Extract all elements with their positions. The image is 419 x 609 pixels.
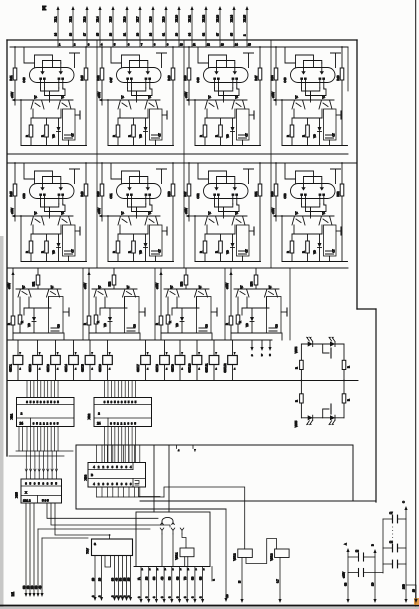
cell7 resistor R73 [204, 234, 206, 241]
XS1 left pin wire b [22, 427, 24, 452]
cell8 resistor R84 [307, 234, 309, 241]
cell2 capacitor C25 [150, 109, 163, 140]
cell2 screen stub [157, 52, 167, 54]
cell7 screen stub [244, 168, 254, 170]
cellB4 bottom wire [231, 332, 281, 334]
cell3 resistor R31 [187, 68, 191, 80]
cell5 transistor VT5.1 [31, 216, 44, 225]
svg-text:+12V: +12V [10, 208, 14, 214]
XS5 pin top 3 [34, 451, 36, 479]
svg-text:26: 26 [135, 33, 139, 36]
XS1 pin wire bottom 1 [26, 427, 28, 452]
XS3 pin top 6 [123, 445, 125, 463]
svg-text:C53: C53 [283, 193, 287, 199]
svg-text:R41: R41 [9, 75, 13, 81]
cell6 bottom wire [108, 261, 174, 263]
svg-text:32: 32 [201, 33, 205, 36]
cell5 triode V5.2 [60, 179, 62, 187]
cell3 resistor R31 feed wire [188, 47, 190, 68]
DD1 top feed [109, 535, 111, 539]
XS2 pin wire bottom 3 [110, 427, 112, 463]
cell2 resistor R24 [133, 118, 135, 125]
cellB4 zener VD74 [250, 317, 254, 322]
net A rail [347, 552, 349, 600]
cell8 bottom wire [282, 261, 348, 263]
cell2 base bar [107, 99, 160, 101]
svg-text:X7.3: X7.3 [82, 16, 86, 22]
row3 divider 3 [224, 268, 226, 340]
cell8 resistor R83 [291, 234, 293, 241]
cell2 transistor VT2.2 [145, 100, 158, 109]
cell3 resistor R32 [258, 68, 262, 80]
cell7 cathode wiring [215, 204, 233, 207]
cellB2 capacitor C82 [125, 297, 140, 334]
svg-text:VD: VD [225, 250, 229, 254]
svg-text:C49: C49 [283, 77, 287, 83]
svg-text:C7: C7 [71, 249, 75, 253]
coupler GB9 [179, 340, 181, 356]
svg-text:X: X [25, 491, 27, 495]
XS3 pin top 8 [133, 445, 135, 463]
VD5.3 output wire [279, 558, 281, 601]
svg-text:VD74: VD74 [294, 346, 298, 353]
svg-text:a: a [94, 542, 96, 546]
svg-text:VD5.3: VD5.3 [269, 553, 273, 561]
cell4 wire R42 down [341, 80, 343, 146]
XS3 pin bottom 1 [96, 487, 98, 497]
capacitor C8 [383, 547, 393, 549]
cellB2 bottom wire [89, 332, 139, 334]
component VD5.2 [238, 549, 253, 558]
svg-text:VD: VD [138, 250, 142, 254]
XS pin wire top x30 [29, 381, 31, 398]
XS3 bottom manifold [97, 496, 164, 498]
svg-text:GB7.1: GB7.1 [9, 364, 13, 372]
cell7 resistor R74 [220, 234, 222, 241]
coupler GB11 [213, 340, 215, 356]
cellB4 transistor VT74.2 [265, 289, 278, 297]
svg-text:IA: IA [137, 577, 141, 580]
svg-text:R: R [40, 251, 44, 253]
XS3 pin top 1 [96, 445, 98, 463]
cell3 ground stub [249, 114, 254, 116]
cellB3 bottom wire [161, 332, 211, 334]
cell4 capacitor C45 [324, 109, 337, 140]
cell4 grid wiring upper [285, 47, 296, 68]
svg-text:R: R [238, 321, 242, 323]
svg-text:C7: C7 [332, 133, 336, 137]
cell6 resistor R64 [133, 234, 135, 241]
cell1 resistor R11 [13, 68, 17, 80]
svg-text:R: R [214, 251, 218, 253]
svg-text:R: R [347, 399, 351, 401]
cell4 bottom wire [282, 145, 348, 147]
svg-text:+12V: +12V [184, 92, 188, 98]
cell5 resistor R51 [13, 184, 17, 196]
cell7 resistor R72 feed [259, 163, 261, 184]
cell4 cathode wiring [302, 88, 320, 91]
svg-text:1D: 1D [371, 583, 375, 586]
svg-text:C52: C52 [196, 193, 200, 199]
svg-text:R74: R74 [250, 281, 254, 286]
cellB1 ground stub [63, 311, 69, 313]
cellB2 resistor R72 [113, 268, 115, 275]
cellB4 supply wire [230, 268, 232, 316]
cellB1 resistor lower2 [18, 315, 22, 324]
cell5 mid wire [31, 233, 61, 235]
cell5 grid wiring upper [24, 163, 35, 184]
svg-text:C7: C7 [158, 133, 162, 137]
cell8 zener VD8 [319, 234, 321, 243]
row2 supply rail [7, 162, 357, 164]
svg-text:423995989: 423995989 [93, 482, 132, 486]
coupler GB5 [89, 340, 91, 356]
svg-text:GB7.11: GB7.11 [205, 363, 209, 372]
cellB4 resistor R74 [255, 268, 257, 275]
XS1 lower manifold [16, 450, 73, 452]
svg-text:VD: VD [103, 323, 107, 327]
svg-text:R: R [20, 321, 24, 323]
cell7 resistor R72 [258, 184, 262, 196]
connector XS2 [87, 398, 152, 427]
cell2 resistor R22 feed [172, 47, 174, 68]
amplifier cell A7 [183, 162, 262, 261]
cell5 resistor R52 feed [85, 163, 87, 184]
cell7 transistor VT7.1 [205, 216, 218, 225]
svg-text:R46: R46 [96, 191, 100, 197]
box B2 bottom ext [134, 566, 210, 568]
cell8 triode V8.2 [321, 179, 323, 187]
svg-text:R48: R48 [270, 191, 274, 197]
cellB4 mid wire [242, 307, 269, 309]
cell1 transistor VT1.1 [31, 100, 44, 109]
cellB2 transistor VT72.2 [123, 289, 136, 297]
svg-text:2B: 2B [145, 576, 149, 580]
jumper pins Y [160, 528, 164, 534]
cell7 resistor R71 feed wire [188, 163, 190, 184]
route wire w3 to DD1 [55, 503, 110, 535]
svg-text:M1: M1 [11, 592, 15, 597]
XS3 pin top 9 [139, 445, 141, 463]
coupler GB6 [107, 340, 109, 356]
top pin 15 wire [246, 8, 248, 47]
DD1 pin 5 [122, 556, 124, 599]
cell7 wire resistor to base [188, 196, 190, 221]
top pin 13 wire [219, 8, 221, 47]
amplifier cell A5 [9, 162, 88, 261]
svg-text:R47: R47 [183, 191, 187, 197]
XS2 pin wire bottom 8 [128, 427, 130, 463]
cell5 left drop [20, 216, 22, 262]
svg-text:C: C [402, 501, 406, 503]
box B2 outline [136, 512, 210, 567]
svg-text:VD5.2: VD5.2 [233, 553, 237, 561]
XS5 pin top 2 [30, 451, 32, 479]
svg-text:35: 35 [229, 33, 233, 36]
amplifier cell A1 [9, 46, 88, 145]
svg-text:31: 31 [161, 33, 165, 36]
top pin 10 wire [178, 8, 180, 47]
cell3 resistor R34 [220, 118, 222, 125]
connector XS2 body [94, 398, 152, 427]
DD1 pin 4 [118, 556, 120, 599]
svg-text:R: R [40, 135, 44, 137]
XS pin wire top x136 [135, 381, 137, 398]
cell6 resistor R62 [171, 184, 175, 196]
svg-text:GB7.4: GB7.4 [64, 364, 68, 372]
cell1 grid wiring upper [24, 47, 35, 68]
svg-text:X7.6: X7.6 [122, 16, 126, 22]
B2 right edge ext [211, 567, 213, 582]
svg-text:VD: VD [225, 134, 229, 138]
cell divider 3 [270, 40, 272, 268]
cell5 cathode wiring [41, 204, 59, 207]
XS2 pin wire bottom 1 [104, 427, 106, 463]
LED VD75 [308, 415, 313, 420]
svg-text:X7.15: X7.15 [242, 14, 246, 22]
svg-text:5B: 5B [168, 576, 172, 580]
top pin 11 wire [191, 8, 193, 47]
cellB1 resistor R71 [37, 268, 39, 275]
cell divider 2 [183, 40, 185, 268]
stub output 1 [251, 340, 253, 349]
cellB1 mid wire [24, 307, 51, 309]
svg-text:VD: VD [138, 134, 142, 138]
svg-text:21: 21 [122, 33, 126, 36]
cell8 left drop [281, 216, 283, 262]
svg-text:+12V: +12V [225, 283, 229, 289]
cell1 wire R12 down [85, 80, 87, 146]
cell6 base bar [107, 215, 160, 217]
cell6 resistor R63 [117, 234, 119, 241]
cell5 transistor VT5.2 [58, 216, 71, 225]
cell7 resistor R71 [187, 184, 191, 196]
svg-text:XS2: XS2 [87, 413, 91, 419]
LED VD72 [330, 341, 335, 346]
cell4 screen stub [331, 52, 341, 54]
bridge resistor R77 [342, 360, 346, 369]
cellB1 bottom wire [13, 332, 63, 334]
B2 pin 8 [194, 567, 196, 601]
cell6 resistor R61 feed wire [101, 163, 103, 184]
B2 pin 2 [148, 567, 150, 601]
cellB3 resistor lower2 [166, 315, 170, 324]
coupler GB12 [232, 340, 234, 356]
svg-text:GB7.6: GB7.6 [98, 364, 102, 372]
svg-text:X7.13: X7.13 [215, 14, 219, 22]
svg-text:VD: VD [51, 250, 55, 254]
cell7 grid wiring upper [198, 163, 209, 184]
route h487 [164, 487, 245, 549]
svg-text:C7: C7 [389, 511, 393, 515]
svg-text:A: A [344, 543, 348, 545]
svg-text:R: R [286, 251, 290, 253]
svg-text:GB7.10: GB7.10 [188, 363, 192, 373]
B2 pin 9 [202, 567, 204, 601]
svg-text:C9: C9 [355, 549, 359, 553]
cell8 grid wiring upper [285, 163, 296, 184]
svg-text:X7.10: X7.10 [174, 14, 178, 22]
cell5 resistor R54 [46, 234, 48, 241]
svg-text:R: R [199, 251, 203, 253]
cell2 resistor R21 feed wire [101, 47, 103, 68]
capacitor C9 [348, 556, 359, 558]
cell1 resistor R14 [46, 118, 48, 125]
svg-text:+12V: +12V [83, 283, 87, 289]
cell4 resistor R41 feed wire [275, 47, 277, 68]
svg-text:R: R [112, 251, 116, 253]
svg-text:C7: C7 [332, 249, 336, 253]
cell7 triode V7.1 [216, 179, 218, 187]
svg-text:GB7.12: GB7.12 [223, 363, 227, 373]
svg-text:3B: 3B [152, 576, 156, 580]
top pin 5 wire [112, 8, 114, 47]
svg-text:+12V: +12V [97, 208, 101, 214]
cell8 wire resistor to base [275, 196, 277, 221]
DD1 pin 1 [94, 556, 96, 599]
XS3 pin top 4 [112, 445, 114, 463]
svg-text:+12V: +12V [155, 283, 159, 289]
cell6 transistor VT6.1 [118, 216, 131, 225]
cell4 triode V4.2 [321, 63, 323, 71]
driver cell B2 [83, 268, 145, 340]
cell1 transistor VT1.2 [58, 100, 71, 109]
svg-text:X7.12: X7.12 [201, 14, 205, 22]
svg-text:24: 24 [20, 421, 24, 425]
link loop wires [153, 445, 155, 512]
XS1 left pin wire a [18, 427, 20, 452]
cell6 wire resistor to base [101, 196, 103, 221]
B2 pin 5 [171, 567, 173, 601]
svg-text:X7.5: X7.5 [108, 16, 112, 22]
svg-text:0B: 0B [344, 583, 348, 586]
cell4 mid wire [292, 117, 322, 119]
XS1 pin wire bottom 8 [50, 427, 52, 452]
svg-text:R42: R42 [96, 75, 100, 81]
row3 bottom rail [7, 339, 272, 341]
svg-text:R71: R71 [32, 281, 36, 286]
cellB4 resistor lower1 [229, 316, 233, 325]
B2 pin 3 [155, 567, 157, 601]
DD1 U-link pins [105, 556, 111, 568]
svg-text:C51: C51 [109, 193, 113, 199]
XS1 pin wire bottom 6 [43, 427, 45, 452]
cell8 input arrow [273, 214, 277, 217]
cell7 base bar [194, 215, 247, 217]
main horizontal bus [7, 380, 358, 382]
svg-text:X7.11: X7.11 [187, 15, 191, 22]
svg-text:R47: R47 [254, 75, 258, 81]
cellB3 transistor VT73.1 [166, 289, 179, 297]
cell3 screen stub [244, 52, 254, 54]
XS5 pin top 7 [51, 451, 53, 479]
box B1 bottom [76, 508, 226, 510]
cell1 base bar [20, 99, 73, 101]
cell2 left drop [107, 100, 109, 146]
svg-text:R: R [295, 367, 299, 369]
XS pin wire top x34 [33, 381, 35, 398]
svg-text:[M]: [M] [42, 6, 46, 11]
cell4 ground stub [336, 114, 341, 116]
cell8 resistor R82 feed [341, 163, 343, 184]
svg-text:C8: C8 [205, 324, 209, 328]
cell5 screen stub [70, 168, 80, 170]
top pin 14 wire [233, 8, 235, 47]
cell4 zener VD4 [319, 118, 321, 127]
bottom left wire 5 [41, 538, 43, 594]
cell8 transistor VT8.2 [319, 216, 332, 225]
XS3 pin bottom 5 [117, 487, 119, 497]
svg-text:R: R [301, 135, 305, 137]
XS pin wire top x44 [43, 381, 45, 398]
main box left border [6, 40, 8, 456]
cell4 resistor R43 [291, 118, 293, 125]
top pin 6 wire [126, 8, 128, 47]
svg-text:34: 34 [187, 33, 191, 36]
cell1 bottom wire [21, 145, 87, 147]
svg-text:5 9 5: 5 9 5 [42, 499, 49, 503]
svg-text:422985984: 422985984 [93, 465, 132, 469]
cell6 grid wiring upper [111, 163, 122, 184]
cellB3 base bar [164, 288, 209, 290]
component VD5.1 [182, 534, 186, 548]
XS1 pin wire bottom 5 [40, 427, 42, 452]
svg-text:R: R [168, 321, 172, 323]
XS2 pin wire bottom 2 [107, 427, 109, 463]
XS5 pin top 5 [43, 451, 45, 479]
cell3 wire resistor to base [188, 80, 190, 105]
cellB4 ground stub [281, 311, 287, 313]
cell5 dual transistor V5 stadium [30, 184, 75, 199]
cell3 grid wiring upper [198, 47, 209, 68]
jumper wires down [161, 534, 163, 567]
cell1 wire resistor to base [14, 80, 16, 105]
cell8 capacitor C85 [324, 225, 337, 256]
cell1 ground stub [75, 114, 80, 116]
driver cell B4 [225, 268, 287, 340]
cellB2 resistor lower2 [94, 315, 98, 324]
stub output 3 [269, 340, 271, 349]
svg-text:C7: C7 [245, 133, 249, 137]
XS5 pin top 4 [38, 451, 40, 479]
cell2 transistor VT2.1 [118, 100, 131, 109]
svg-text:VD: VD [312, 134, 316, 138]
bridge bottom probe [323, 409, 329, 418]
cellB2 zener VD72 [108, 317, 112, 322]
cellB4 resistor lower2 [236, 315, 240, 324]
amplifier cell A3 [183, 46, 262, 145]
DD1 pin 2 [101, 556, 103, 599]
IC DD1 body [92, 539, 133, 556]
svg-text:X7.2: X7.2 [68, 16, 72, 22]
cell7 bottom wire [195, 261, 261, 263]
cell7 triode V7.2 [234, 179, 236, 187]
XS pin wire top x115 [114, 381, 116, 398]
svg-text:+12V: +12V [342, 572, 346, 578]
cell6 resistor R62 feed [172, 163, 174, 184]
cell5 input arrow [12, 214, 16, 217]
svg-text:VD: VD [312, 250, 316, 254]
XS3 right drop [139, 487, 161, 497]
cell4 resistor R44 [307, 118, 309, 125]
XS pin wire top x129 [128, 381, 130, 398]
svg-text:6B: 6B [175, 576, 179, 580]
cell5 wire resistor to base [14, 196, 16, 221]
svg-text:R: R [96, 321, 100, 323]
XS pin wire top x55 [54, 381, 56, 398]
cell3 transistor VT3.1 [205, 100, 218, 109]
cell6 mid wire [118, 233, 148, 235]
